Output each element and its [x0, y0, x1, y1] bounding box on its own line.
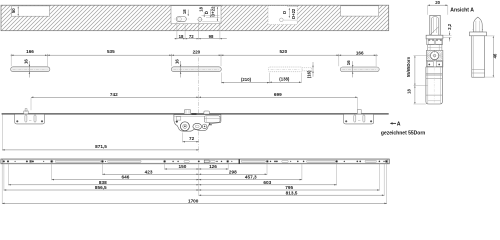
svg-text:16: 16	[346, 60, 351, 65]
svg-text:166: 166	[26, 49, 34, 54]
svg-text:535: 535	[107, 49, 115, 54]
svg-text:150: 150	[178, 164, 186, 169]
svg-text:Ansicht A: Ansicht A	[450, 7, 474, 13]
svg-text:2,2: 2,2	[447, 23, 452, 29]
svg-text:72: 72	[189, 136, 195, 141]
svg-text:55/65Dorn: 55/65Dorn	[406, 56, 411, 77]
svg-text:50: 50	[11, 8, 16, 13]
svg-text:856,5: 856,5	[95, 185, 107, 190]
svg-text:1700: 1700	[188, 199, 199, 204]
svg-text:18: 18	[198, 6, 203, 11]
svg-text:72: 72	[189, 34, 194, 39]
svg-text:166: 166	[356, 50, 364, 55]
svg-text:298: 298	[229, 169, 237, 174]
svg-text:18: 18	[406, 89, 411, 94]
svg-text:457,3: 457,3	[245, 175, 257, 180]
svg-text:gezeichnet 55Dorn: gezeichnet 55Dorn	[381, 130, 425, 136]
svg-text:16: 16	[23, 59, 28, 64]
svg-text:98: 98	[209, 34, 214, 39]
svg-text:46: 46	[492, 53, 497, 58]
svg-text:D+22: D+22	[291, 8, 296, 19]
svg-text:A: A	[397, 121, 401, 127]
svg-text:742: 742	[110, 92, 118, 97]
svg-text:D+22: D+22	[211, 6, 216, 17]
svg-text:423: 423	[145, 169, 153, 174]
svg-text:646: 646	[121, 175, 129, 180]
svg-text:126: 126	[209, 164, 217, 169]
svg-text:(210): (210)	[241, 77, 252, 82]
svg-text:(138): (138)	[279, 77, 290, 82]
svg-text:871,5: 871,5	[95, 144, 107, 149]
svg-text:603: 603	[263, 180, 271, 185]
svg-text:520: 520	[279, 49, 287, 54]
svg-text:18: 18	[179, 34, 184, 39]
svg-text:813,5: 813,5	[286, 190, 298, 195]
svg-text:(16): (16)	[306, 70, 311, 78]
svg-text:699: 699	[274, 92, 282, 97]
svg-text:D: D	[282, 11, 287, 14]
svg-text:D: D	[204, 11, 209, 14]
svg-text:18: 18	[182, 9, 187, 14]
svg-text:16: 16	[174, 59, 179, 64]
svg-text:20: 20	[435, 0, 440, 5]
svg-text:220: 220	[193, 49, 201, 54]
